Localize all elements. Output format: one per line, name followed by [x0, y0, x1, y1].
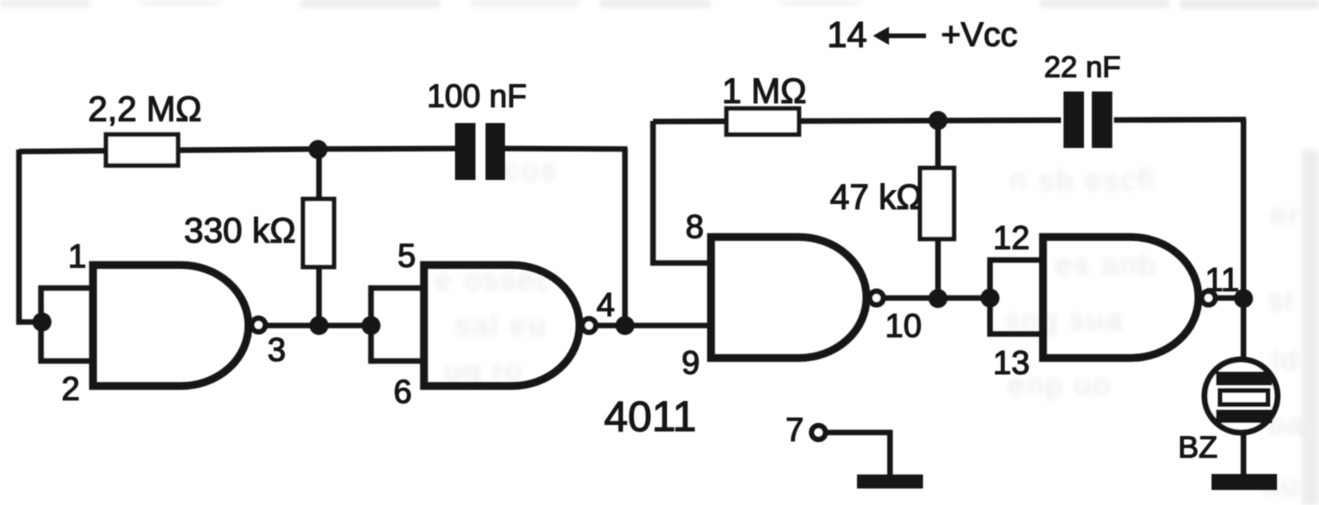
svg-text:st: st — [1268, 284, 1295, 317]
svg-text:22 nF: 22 nF — [1044, 51, 1121, 84]
svg-text:5: 5 — [398, 237, 416, 274]
svg-text:1 MΩ: 1 MΩ — [722, 72, 807, 111]
svg-text:9: 9 — [682, 344, 700, 381]
svg-text:8: 8 — [686, 208, 704, 245]
svg-text:uq ro: uq ro — [445, 354, 523, 387]
svg-text:4: 4 — [597, 286, 615, 323]
svg-text:6: 6 — [394, 373, 412, 410]
svg-text:BZ: BZ — [1178, 430, 1218, 465]
svg-text:cos: cos — [505, 154, 558, 187]
svg-text:+Vcc: +Vcc — [941, 16, 1018, 54]
svg-text:er: er — [1270, 199, 1301, 232]
svg-text:1: 1 — [68, 238, 86, 275]
svg-text:2: 2 — [62, 370, 80, 407]
svg-text:14: 14 — [827, 14, 867, 55]
svg-text:7: 7 — [786, 411, 804, 448]
svg-text:13: 13 — [993, 344, 1030, 381]
svg-text:4011: 4011 — [604, 393, 696, 441]
svg-text:ld: ld — [1272, 344, 1299, 377]
svg-text:12: 12 — [993, 219, 1030, 256]
svg-text:sal eu: sal eu — [455, 309, 547, 342]
svg-text:2,2 MΩ: 2,2 MΩ — [88, 90, 202, 129]
svg-text:10: 10 — [885, 307, 922, 344]
svg-text:11: 11 — [1205, 261, 1239, 298]
svg-text:es anb: es anb — [1055, 249, 1157, 282]
svg-text:47 kΩ: 47 kΩ — [830, 178, 922, 217]
svg-text:n sb escfi: n sb escfi — [1010, 164, 1157, 197]
svg-text:100 nF: 100 nF — [427, 78, 527, 114]
svg-text:330 kΩ: 330 kΩ — [184, 212, 296, 251]
svg-text:3: 3 — [268, 331, 286, 368]
